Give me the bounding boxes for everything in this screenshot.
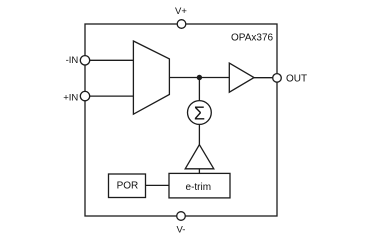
svg-text:+IN: +IN <box>63 92 78 103</box>
svg-text:e-trim: e-trim <box>186 182 212 193</box>
svg-text:OPAx376: OPAx376 <box>231 33 273 44</box>
svg-text:-IN: -IN <box>66 55 79 66</box>
svg-text:V+: V+ <box>175 6 187 17</box>
svg-text:POR: POR <box>117 181 139 192</box>
svg-text:OUT: OUT <box>286 74 307 85</box>
svg-text:Σ: Σ <box>194 103 205 123</box>
svg-text:V-: V- <box>177 225 186 236</box>
